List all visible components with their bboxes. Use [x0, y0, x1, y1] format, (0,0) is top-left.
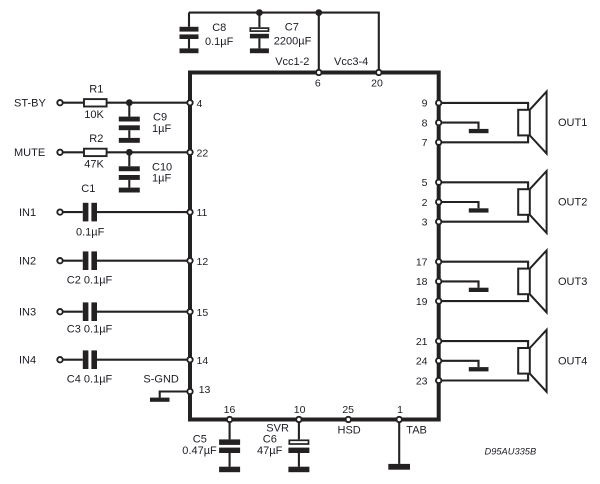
- svg-text:3: 3: [422, 217, 428, 229]
- svg-text:C3 0.1µF: C3 0.1µF: [67, 324, 113, 336]
- wire pin 3 to speaker OUT2: [439, 215, 528, 222]
- svg-text:OUT2: OUT2: [558, 197, 587, 209]
- svg-text:6: 6: [315, 78, 321, 90]
- svg-text:9: 9: [422, 98, 428, 110]
- svg-text:C6: C6: [263, 433, 277, 445]
- pin 15: [187, 307, 208, 319]
- ground (OUT3 return): [469, 288, 489, 292]
- speaker OUT4: [518, 330, 546, 392]
- svg-text:R1: R1: [89, 83, 103, 95]
- pin 24: [416, 356, 442, 368]
- svg-text:0.1µF: 0.1µF: [76, 226, 105, 238]
- svg-text:C4 0.1µF: C4 0.1µF: [67, 373, 113, 385]
- wire C1 to pin 11: [97, 211, 188, 213]
- wire pin 19 to speaker OUT3: [439, 294, 528, 301]
- svg-text:0.47µF: 0.47µF: [182, 445, 217, 457]
- svg-text:IN3: IN3: [19, 307, 36, 319]
- wire pin 13 to ground: [160, 392, 188, 398]
- pin 9: [422, 98, 442, 110]
- svg-text:1µF: 1µF: [152, 123, 171, 135]
- svg-text:ST-BY: ST-BY: [14, 98, 46, 110]
- ground (C6): [288, 467, 309, 473]
- pin 13: [187, 384, 210, 396]
- terminal IN4: [19, 355, 83, 367]
- pin 20: [371, 70, 383, 90]
- ground (OUT2 return): [469, 208, 489, 212]
- pin 14: [187, 355, 208, 367]
- wire Vcc top rail: [189, 12, 379, 14]
- ground (C8): [180, 48, 199, 53]
- capacitor C1: [76, 183, 105, 238]
- svg-text:HSD: HSD: [338, 424, 361, 436]
- pin 3: [422, 217, 442, 229]
- svg-text:OUT4: OUT4: [558, 355, 587, 367]
- capacitor C10: [119, 152, 172, 187]
- svg-text:C2 0.1µF: C2 0.1µF: [67, 274, 113, 286]
- wire pin 21 to speaker OUT4: [439, 341, 528, 348]
- pin 16: [224, 404, 236, 422]
- svg-text:8: 8: [422, 117, 428, 129]
- ground (C7): [250, 48, 269, 53]
- pin 22: [187, 147, 208, 159]
- node junction rail/C7: [256, 9, 263, 16]
- terminal IN1: [19, 207, 83, 219]
- svg-text:11: 11: [197, 207, 208, 219]
- ground (TAB): [388, 464, 410, 470]
- svg-text:18: 18: [416, 276, 428, 288]
- svg-text:22: 22: [197, 147, 209, 159]
- svg-text:4: 4: [197, 98, 203, 110]
- pin 7: [422, 137, 442, 149]
- ground S-GND: [150, 398, 170, 402]
- svg-text:7: 7: [422, 137, 428, 149]
- pin 12: [187, 256, 208, 268]
- speaker OUT3: [518, 250, 546, 312]
- svg-text:24: 24: [416, 356, 428, 368]
- svg-text:14: 14: [197, 355, 209, 367]
- svg-text:C9: C9: [153, 112, 167, 124]
- pin 8: [422, 117, 442, 129]
- svg-text:C10: C10: [152, 161, 172, 173]
- pin 10: [294, 404, 306, 422]
- svg-text:1: 1: [397, 404, 403, 416]
- wire pin 7 to speaker OUT1: [439, 135, 528, 142]
- pin 4: [187, 98, 202, 110]
- svg-text:C1: C1: [81, 183, 95, 195]
- svg-text:MUTE: MUTE: [14, 147, 45, 159]
- pin 25: [342, 404, 354, 422]
- terminal IN3: [19, 307, 83, 319]
- svg-text:5: 5: [422, 177, 428, 189]
- node junction rail/pin6: [315, 9, 322, 16]
- ground (C10): [119, 188, 140, 193]
- wire pin 23 to speaker OUT4: [439, 374, 528, 381]
- node junction R1/C9: [126, 99, 133, 106]
- wire pin 8 to ground: [439, 123, 479, 129]
- capacitor C4: [67, 350, 113, 385]
- svg-text:10K: 10K: [84, 109, 104, 121]
- speaker OUT1: [518, 92, 546, 154]
- svg-text:17: 17: [416, 257, 428, 269]
- svg-text:10: 10: [294, 404, 306, 416]
- wire pin 17 to speaker OUT3: [439, 262, 528, 269]
- terminal ST-BY: [14, 98, 84, 110]
- ground (OUT4 return): [469, 367, 489, 371]
- pin 11: [187, 207, 207, 219]
- svg-text:IN4: IN4: [19, 355, 36, 367]
- svg-text:TAB: TAB: [406, 424, 427, 436]
- capacitor C3: [67, 302, 113, 335]
- pin 1: [397, 404, 404, 422]
- wire pin 9 to speaker OUT1: [439, 103, 528, 110]
- wire C2 to pin 12: [97, 260, 188, 262]
- svg-text:47K: 47K: [84, 159, 104, 171]
- svg-text:13: 13: [199, 384, 211, 396]
- svg-text:D95AU335B: D95AU335B: [485, 447, 537, 457]
- svg-text:Vcc3-4: Vcc3-4: [334, 56, 368, 68]
- wire C4 to pin 14: [97, 359, 188, 361]
- wire R2 to pin 22: [107, 151, 188, 153]
- svg-text:IN1: IN1: [19, 207, 36, 219]
- wire pin 2 to ground: [439, 202, 479, 208]
- terminal MUTE: [14, 147, 84, 159]
- svg-text:23: 23: [416, 375, 428, 387]
- pin 19: [416, 296, 442, 308]
- pin 21: [416, 336, 442, 348]
- wire pin 1 to ground: [398, 421, 400, 464]
- wire to pin 6: [318, 13, 320, 71]
- pin 23: [416, 375, 442, 387]
- ground (C5): [219, 467, 240, 473]
- svg-text:2200µF: 2200µF: [274, 36, 312, 48]
- ground (OUT1 return): [469, 129, 489, 133]
- svg-text:12: 12: [197, 256, 209, 268]
- svg-text:19: 19: [416, 296, 428, 308]
- terminal IN2: [19, 256, 83, 268]
- capacitor C7: [250, 13, 312, 49]
- svg-text:C5: C5: [193, 433, 207, 445]
- wire pin 18 to ground: [439, 281, 479, 287]
- capacitor C8: [180, 13, 234, 49]
- svg-text:C7: C7: [285, 22, 299, 34]
- pin 2: [422, 197, 442, 209]
- pin 5: [422, 177, 442, 189]
- svg-text:25: 25: [342, 404, 354, 416]
- svg-text:47µF: 47µF: [257, 445, 283, 457]
- resistor R2: [84, 133, 107, 171]
- resistor R1: [84, 83, 107, 121]
- pin 17: [416, 257, 442, 269]
- svg-text:2: 2: [422, 197, 428, 209]
- IC U1 body: [190, 73, 439, 420]
- svg-text:15: 15: [197, 307, 209, 319]
- wire pin 5 to speaker OUT2: [439, 182, 528, 189]
- svg-text:Vcc1-2: Vcc1-2: [275, 56, 309, 68]
- capacitor C5: [182, 421, 240, 466]
- wire C3 to pin 15: [97, 311, 188, 313]
- pin 18: [416, 276, 442, 288]
- svg-text:C8: C8: [212, 22, 226, 34]
- svg-text:21: 21: [416, 336, 428, 348]
- ground (C9): [119, 138, 140, 143]
- svg-text:0.1µF: 0.1µF: [205, 36, 234, 48]
- svg-text:S-GND: S-GND: [143, 373, 179, 385]
- svg-text:IN2: IN2: [19, 256, 36, 268]
- svg-text:16: 16: [224, 404, 236, 416]
- svg-text:OUT1: OUT1: [558, 117, 587, 129]
- node junction R2/C10: [126, 149, 133, 156]
- capacitor C6: [257, 421, 309, 466]
- wire R1 to pin 4: [107, 102, 188, 104]
- capacitor C2: [67, 251, 113, 286]
- wire to pin 20: [378, 12, 380, 71]
- svg-text:1µF: 1µF: [152, 173, 171, 185]
- pin 6: [315, 70, 322, 90]
- speaker OUT2: [518, 171, 546, 233]
- wire pin 24 to ground: [439, 361, 479, 367]
- svg-text:R2: R2: [89, 133, 103, 145]
- svg-text:20: 20: [371, 78, 383, 90]
- svg-text:OUT3: OUT3: [558, 276, 587, 288]
- capacitor C9: [119, 103, 172, 138]
